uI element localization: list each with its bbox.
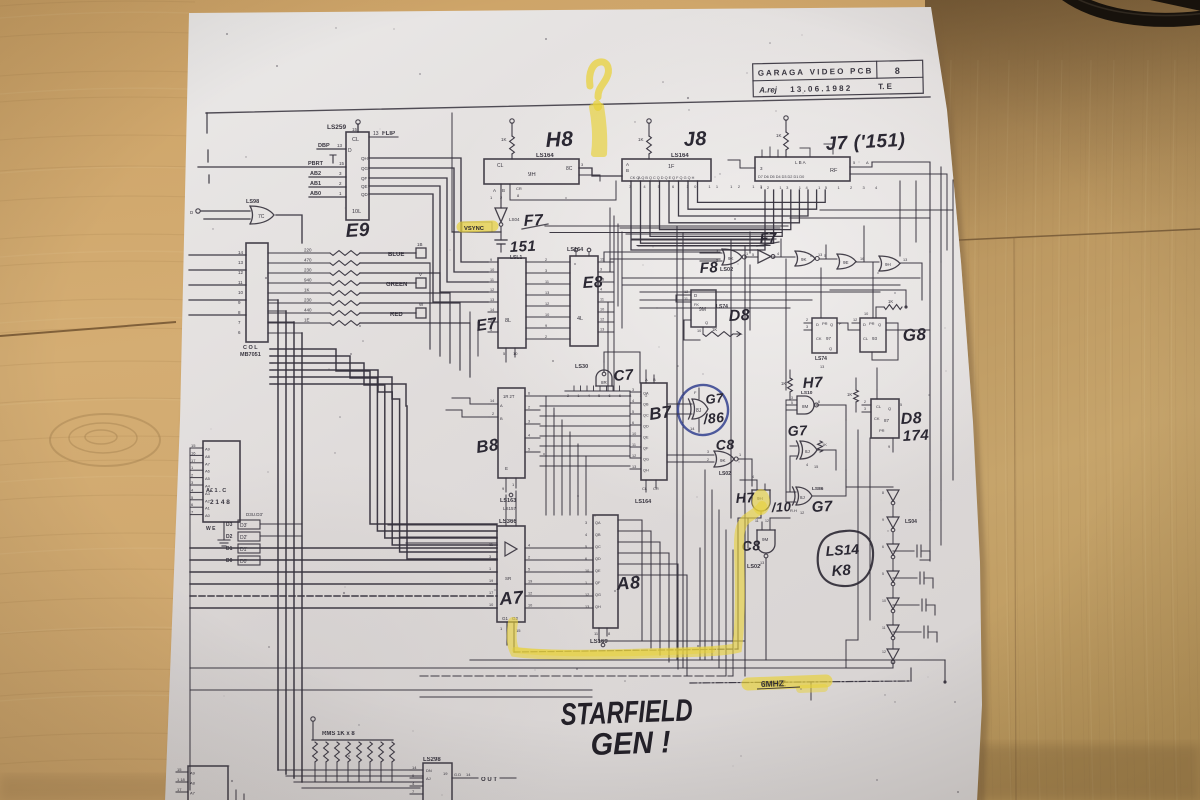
- wire K8 chain bottom out: [846, 662, 893, 668]
- wire G8 outputs right: [886, 329, 930, 331]
- wire rows from resistor network to staircase drops: [360, 263, 430, 349]
- wire K8 loop top: [846, 470, 893, 487]
- inverter F8 row: [758, 250, 771, 263]
- E8 right output stubs: [598, 261, 614, 263]
- IC H8 LS164 box: [484, 159, 579, 184]
- yellow highlighter 6MHZ: [748, 681, 826, 684]
- wire E7 area verticals down to staircase: [469, 312, 471, 349]
- wire loop right column: [920, 510, 930, 560]
- D8 174 input resistor 1K: [854, 390, 859, 402]
- E7 left pin stubs: [488, 261, 498, 263]
- wire E7 to E8 rows: [526, 261, 570, 263]
- IC J7 LS151 box: [755, 157, 850, 181]
- A8 bottom pins: [598, 628, 600, 641]
- inverter F7 LS04: [495, 208, 507, 222]
- wire bottom row 668 long: [190, 667, 890, 669]
- A7 buffer triangle: [505, 542, 517, 556]
- wire E8 outputs down to C7 bus: [613, 272, 615, 391]
- frame border left dashes: [206, 113, 208, 133]
- E9 input PBRT: [198, 166, 346, 168]
- gate 7C LS08 left edge: [250, 206, 274, 224]
- wire H7 output: [816, 405, 846, 420]
- wire bus rows into A7 upper: [388, 524, 497, 526]
- wire vertical 945 down: [944, 660, 946, 683]
- D8 174 pins: [862, 404, 871, 406]
- IC E9 LS259 box: [346, 132, 369, 220]
- A7 right pins to A8: [525, 547, 593, 549]
- wire right vertical long to K8 area: [929, 252, 931, 510]
- H7 inputs: [786, 399, 797, 401]
- gate G7 XOR lower LS86: [793, 487, 813, 505]
- C8 upper inputs: [700, 454, 714, 456]
- wire bus above F8 row from J8 area: [545, 225, 788, 227]
- LS298 left pins: [410, 769, 423, 771]
- wire C7 output up: [604, 352, 640, 383]
- K8 chain capacitors: [893, 545, 930, 561]
- capacitor 151 bypass: [500, 232, 502, 240]
- G8 pull-up resistor 1K: [884, 305, 902, 310]
- IC B7 LS164 box: [641, 383, 667, 480]
- wire B8 bottom to A7 top: [505, 495, 507, 526]
- H8 pull-up resistor 1K: [510, 119, 514, 123]
- blue pen circle around G7 86: [673, 380, 732, 439]
- yellow highlighter vertical stroke top: [592, 106, 604, 154]
- wire D8 174 top: [876, 390, 878, 399]
- wire vertical 811 below 6MHZ: [810, 683, 812, 700]
- wire B7 left bus verticals: [629, 392, 631, 458]
- wood shading bottom left: [0, 775, 180, 800]
- gate C7 LS30 NAND: [596, 370, 612, 386]
- wire gate1 to inverter: [747, 256, 759, 258]
- wire bus below F8 row: [622, 277, 920, 279]
- terminal BLUE: [360, 252, 416, 254]
- B7 bottom pins: [645, 480, 647, 492]
- wire E8 outputs up to F8 row: [604, 252, 720, 262]
- G8 pins 93: [852, 322, 860, 324]
- wire C8 upper output: [738, 459, 752, 486]
- G7 upper wires: [790, 445, 797, 447]
- inverter chain K8 LS04: [887, 490, 899, 501]
- wire 2148 left bus down: [189, 448, 191, 560]
- wire C8 lower output down: [765, 558, 767, 660]
- wire bus E8 to J7 fan area: [609, 208, 611, 262]
- gate G7 XOR 8J circled: [689, 399, 709, 419]
- H7 lower input wires: [756, 480, 758, 490]
- gate H7 lower AND down: [752, 490, 770, 511]
- wire bottom edge stubs: [235, 790, 237, 800]
- wire H8 pinA down to F7 inverter: [500, 184, 502, 208]
- wire A7 G2 highlighted run bottom: [514, 649, 738, 652]
- wood grain left plank: [0, 1, 195, 764]
- wood knot left plank: [50, 414, 160, 466]
- J7 pull-up resistor 1K: [784, 116, 788, 120]
- J8 pull-up resistor 1K: [647, 119, 651, 123]
- gate 7C input terminal circle: [196, 209, 200, 213]
- wire right verticals F8 to lower: [749, 265, 751, 330]
- gate C8 lower NOR down: [757, 530, 775, 553]
- terminal GREEN: [360, 282, 416, 284]
- paper photocopy speckle: [211, 27, 959, 795]
- wire long verticals from F7 bus down to bottom rows: [676, 226, 678, 660]
- black cable top right corner: [1063, 0, 1200, 20]
- gate H7 LS10 NAND: [797, 396, 814, 414]
- J7 left pin wire: [728, 160, 755, 168]
- IC B8 LS163 box: [498, 388, 525, 478]
- C8 lower input wires: [761, 522, 763, 530]
- wire VSYNC node: [500, 227, 502, 232]
- yellow highlighter blob on H7 gate: [752, 489, 770, 515]
- B8 right pins: [525, 395, 540, 397]
- E9 input AB2: [309, 176, 346, 178]
- wire G8 interconnect: [837, 323, 852, 330]
- yellow highlighter long path A7 to H7: [512, 506, 762, 655]
- paper sheet: [165, 7, 982, 800]
- yellow highlighter question mark: [590, 62, 609, 97]
- B8 left pins A B: [489, 403, 498, 405]
- wood plank seam left: [0, 322, 176, 336]
- J7 output wire right: [850, 162, 872, 167]
- wire fan J8 outputs to J7 inputs nested U bus: [631, 181, 765, 250]
- wire bus left edge to A7 inputs: [190, 547, 497, 549]
- IC bottom left partial box: [188, 766, 228, 800]
- wire bus E9 outputs to E7 region: [369, 158, 488, 262]
- H7 input resistor 1K: [788, 378, 793, 392]
- IC LS298 box: [423, 763, 452, 800]
- wire F8 gate1 inputs: [700, 252, 722, 254]
- wire bus above F8 row: [620, 227, 780, 229]
- J7 select input marks: [762, 147, 778, 157]
- wire F8 outputs up to bus: [749, 232, 751, 253]
- IC G8 flip-flop 97 box: [812, 318, 837, 353]
- IC E8 box: [570, 256, 598, 346]
- label 13 FLIP: [369, 136, 398, 138]
- gate G7 XOR upper: [797, 441, 818, 459]
- wood shading bottom right: [940, 745, 1200, 800]
- IC J8 LS164 box: [622, 159, 711, 181]
- G7 lower wires: [786, 491, 796, 493]
- gate F8 NOR 9K second: [795, 251, 815, 266]
- wire verticals from J7 fan bottom: [704, 470, 706, 660]
- paper lighting highlight: [0, 0, 1, 1]
- wire D8 feedback left: [676, 295, 683, 302]
- wire bus top right verticals: [872, 162, 930, 252]
- B7 left pin stubs: [630, 391, 641, 393]
- terminal RED: [360, 312, 416, 314]
- wire resistor pack to LS298: [392, 781, 420, 783]
- C7 input bus: [565, 390, 630, 392]
- wood shading top right: [0, 0, 1, 1]
- wire H7 lower output to yellow path: [738, 511, 761, 649]
- B8 bottom pins: [505, 478, 507, 492]
- 2148 address pins: [190, 447, 203, 449]
- wire inverter to gate2: [773, 256, 795, 258]
- wire connector inputs from paper edge: [189, 254, 246, 256]
- resistor pack bus and pull-up: [312, 739, 393, 741]
- IC G8 flip-flop 93 box: [860, 318, 886, 352]
- wire long verticals center right: [699, 548, 701, 660]
- wire gate4 output right: [900, 263, 922, 300]
- wire bus vertical bundle to bottom left: [268, 299, 278, 301]
- D8 bottom resistor 1K to arrow: [702, 327, 704, 334]
- wood plank seam right vertical: [1014, 238, 1016, 800]
- gate F8 NOR 9K first: [722, 249, 742, 265]
- gate F8 OR 9E third: [837, 254, 856, 269]
- title block frame: [753, 60, 924, 97]
- wire mesh verticals down to A8: [545, 396, 547, 515]
- wire bundle C elbows to LS298: [278, 769, 423, 771]
- IC A7 LS366 box: [497, 526, 525, 622]
- G8 pins 97: [804, 322, 812, 324]
- E9 input DBP: [317, 148, 346, 150]
- wire bottom row 697: [420, 696, 592, 698]
- wire staircase into B8: [452, 398, 489, 404]
- wire mesh B8 to B7 rows: [540, 395, 630, 397]
- resistor network RGB 8x: [268, 252, 330, 254]
- IC E7 box: [498, 258, 526, 348]
- connector COL box: [246, 243, 268, 342]
- frame border top line: [206, 97, 930, 113]
- wire bus staircase to A7 B8 region: [270, 349, 497, 524]
- yellow highlighter VSYNC: [462, 226, 493, 227]
- E9 input AB0: [309, 196, 346, 198]
- E9 top pin pull-up: [356, 120, 360, 124]
- IC A8 LS169 box: [593, 515, 618, 628]
- wire 7C output: [276, 215, 302, 243]
- wire G7 column verticals: [785, 410, 787, 502]
- IC D8 LS74 box: [691, 290, 716, 327]
- wire bottom row 690: [190, 689, 592, 691]
- wire bus rows into gates x640-700: [667, 403, 692, 405]
- wire bus upper right extras: [790, 217, 930, 219]
- wire 6MHZ vertical to chain: [910, 668, 912, 681]
- wood plank seam right horizontal: [938, 229, 1200, 241]
- wire gate2 to gate3: [820, 258, 838, 260]
- wire H8 output to J8: [579, 168, 622, 176]
- wire gate3 to gate4: [856, 261, 879, 263]
- resistor pack resistors: [313, 742, 318, 762]
- gate C8 NOR upper: [714, 451, 734, 467]
- wire H8 pinB to right: [510, 181, 616, 200]
- paper sheet shadow: [168, 12, 988, 800]
- annotation circle LS14 K8: [818, 531, 873, 586]
- D8 left pins: [683, 294, 691, 296]
- wood table background left plank: [0, 0, 935, 800]
- wire bottom row 676: [420, 675, 733, 677]
- wire bottom row 660: [470, 659, 945, 661]
- wire LS298 output OUT: [452, 777, 478, 779]
- G7 upper resistor 1K: [818, 441, 823, 452]
- IC D8 174 box: [871, 399, 899, 438]
- wire mid bus rows y300: [640, 299, 812, 301]
- wire right verticals to chain: [845, 420, 847, 470]
- gate F8 OR 9H fourth: [879, 256, 900, 271]
- wire fan A8 right side down: [618, 520, 642, 641]
- E9 input AB1: [309, 186, 346, 188]
- wire 6MHZ dash-dot: [690, 681, 911, 683]
- wire A8 bottom loop: [599, 640, 744, 642]
- wood grain right plank: [932, 40, 1200, 800]
- E8 pull-up circles: [574, 248, 578, 252]
- IC 2148 RAM box: [203, 441, 240, 522]
- wood table background right plank: [925, 0, 1200, 800]
- wire staircase feed verticals from connector area: [269, 348, 271, 350]
